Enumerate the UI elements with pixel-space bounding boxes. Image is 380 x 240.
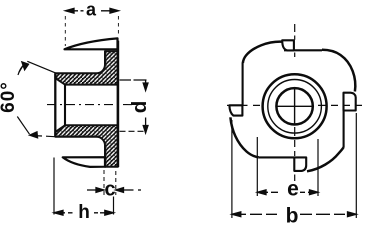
dimension e: extension lines (256, 137, 258, 196)
dimension a: dimension line with arrows (65, 8, 118, 13)
flange back face (right vertical edge) (117, 41, 120, 167)
svg-text:60°: 60° (0, 81, 19, 113)
top prong chord (284, 49, 322, 51)
60 degree lower leg (dashed) with arrowhead and arc stub (17, 117, 57, 138)
right prong tab (344, 93, 356, 111)
top prong tab (282, 40, 294, 51)
bottom prong tab (294, 157, 306, 171)
centerline of bore (left view) (47, 104, 133, 106)
horizontal centerline dashes (227, 104, 260, 106)
dimension d: vertical line with arrows (143, 80, 148, 133)
left prong chord (242, 63, 244, 106)
60 degree upper leg with arrowhead (18, 61, 57, 75)
svg-text:h: h (78, 202, 90, 223)
dimension d: extension lines (120, 79, 147, 81)
svg-text:a: a (86, 0, 97, 20)
arc lower-right (307, 147, 344, 171)
left prong tab (229, 105, 242, 115)
dimension b: extension lines (231, 120, 233, 218)
arc upper-left (243, 42, 282, 63)
dimension c: extension lines (103, 170, 105, 195)
thread circle (thin) (268, 80, 322, 134)
bore circle (276, 88, 312, 124)
vertical centerline dashes (294, 24, 296, 57)
countersink edge line in bore (64, 84, 66, 126)
section body lower (barrel wall + flange lower), hatched (55, 125, 118, 167)
section body upper (barrel wall + flange upper), hatched (55, 51, 118, 84)
arc upper-right (322, 50, 355, 92)
svg-text:e: e (287, 178, 299, 201)
dimension e: dimension line with arrows (257, 190, 318, 195)
dimension b: dimension line with arrows (232, 212, 356, 217)
counterbore circle (263, 74, 327, 138)
svg-text:d: d (128, 101, 151, 114)
top prong (claw) (65, 38, 118, 49)
bottom prong (claw) (63, 157, 105, 167)
dimension c: arrows outside pointing inward (87, 188, 141, 193)
right prong chord (343, 111, 345, 148)
barrel mouth face (left end, vertical) (54, 73, 56, 137)
outer flange arcs (4 segments, slightly hand-drawn) (230, 42, 355, 172)
bottom prong chord (259, 156, 295, 158)
arc lower-left (230, 117, 258, 157)
svg-text:b: b (286, 205, 299, 228)
dimension h: extension lines (53, 158, 55, 215)
dimension a: extension lines (64, 16, 66, 46)
dimension h: dimension line with arrows (54, 210, 114, 215)
center cross (277, 89, 312, 124)
